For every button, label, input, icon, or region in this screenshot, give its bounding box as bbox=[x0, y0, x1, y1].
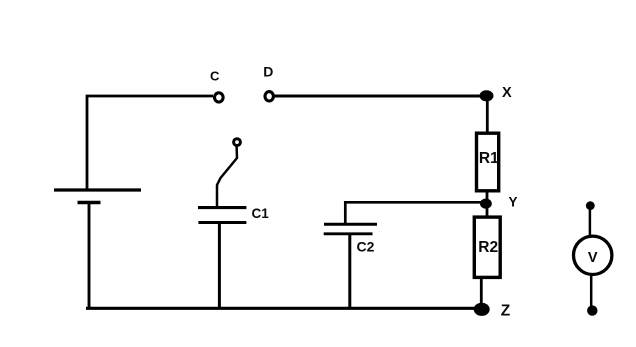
svg-text:V: V bbox=[588, 250, 598, 266]
svg-text:C2: C2 bbox=[357, 239, 375, 255]
svg-text:Z: Z bbox=[501, 303, 511, 320]
svg-text:X: X bbox=[502, 85, 512, 101]
svg-text:Y: Y bbox=[509, 195, 518, 210]
svg-text:R1: R1 bbox=[479, 150, 499, 167]
svg-text:C1: C1 bbox=[252, 206, 270, 221]
svg-text:C: C bbox=[210, 69, 220, 84]
svg-text:R2: R2 bbox=[478, 239, 498, 256]
svg-text:D: D bbox=[263, 63, 273, 79]
